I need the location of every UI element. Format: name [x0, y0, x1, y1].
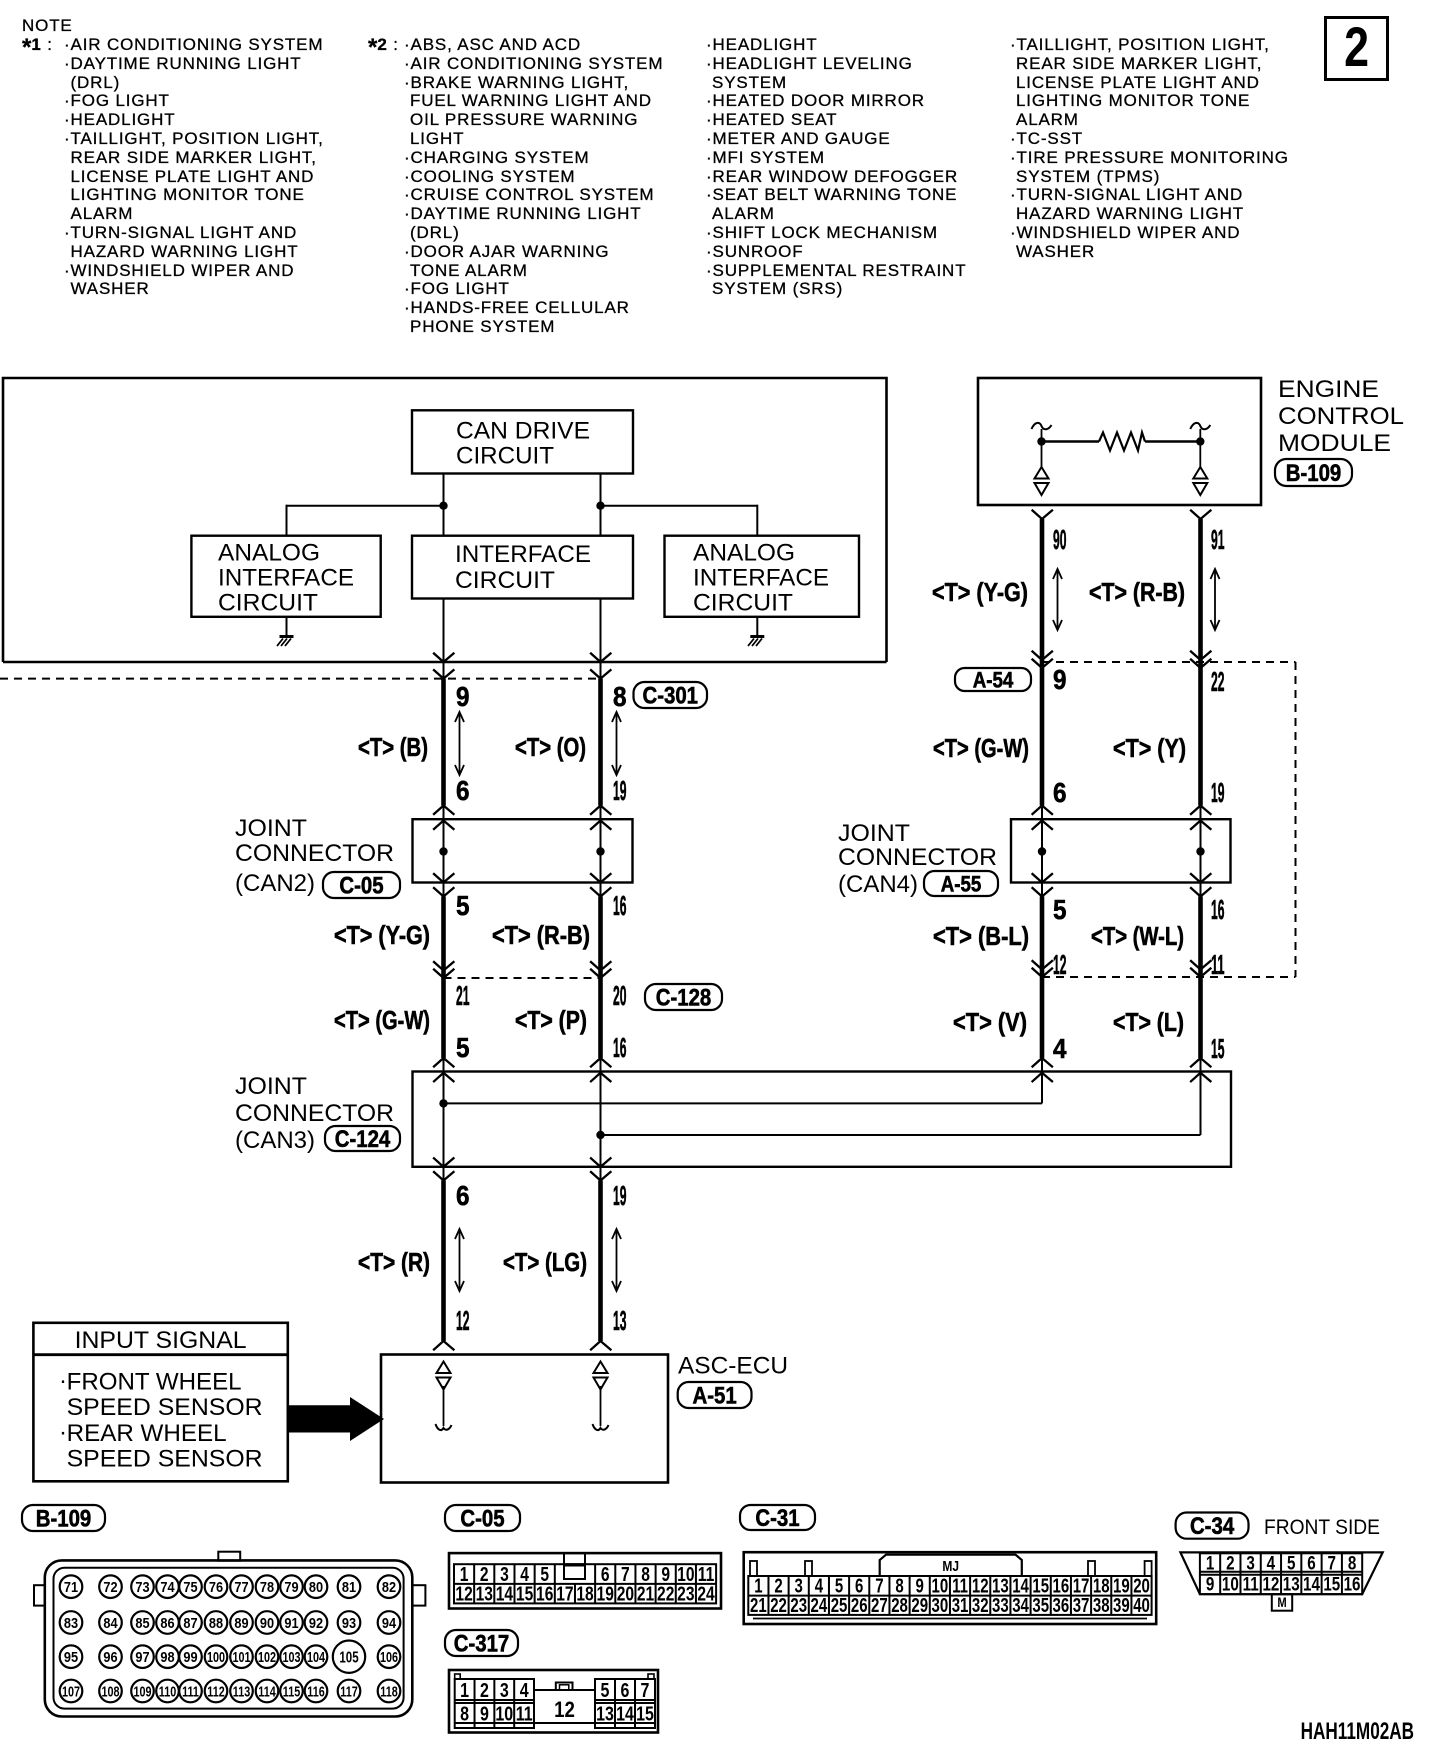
svg-text:29: 29: [911, 1594, 928, 1617]
connector C-128 dashed boundary: [444, 977, 601, 979]
svg-text:A-54: A-54: [973, 669, 1014, 693]
svg-text:13: 13: [596, 1703, 614, 1725]
svg-text:SPEED SENSOR: SPEED SENSOR: [67, 1394, 263, 1421]
svg-text:<T> (B-L): <T> (B-L): [933, 921, 1029, 951]
C-317 center cavity: [534, 1689, 595, 1691]
joint connector (CAN2) C-05 box: [413, 819, 633, 882]
B-109 pin 111: [179, 1680, 202, 1703]
B-109 pin 99: [179, 1645, 202, 1668]
svg-text:38: 38: [1093, 1594, 1110, 1617]
note list 1 items: [64, 36, 323, 55]
crossing at C-128 (left): [434, 970, 454, 979]
ground (left analog interface): [286, 617, 288, 636]
C-05 pin 12: [455, 1583, 472, 1605]
svg-text:94: 94: [382, 1614, 396, 1631]
twisted pair arrow (ECM left): [1057, 570, 1059, 629]
crossing above C-128 (right): [591, 962, 611, 971]
svg-text:ASC-ECU: ASC-ECU: [678, 1353, 788, 1380]
wire inside C-124 (left): [443, 1072, 445, 1167]
C-05 pin 16: [536, 1583, 553, 1605]
svg-text:6: 6: [621, 1679, 630, 1701]
svg-text:20: 20: [617, 1583, 634, 1605]
C-317 pin 8: [460, 1703, 469, 1725]
svg-text:A-55: A-55: [941, 873, 982, 897]
crossing at C-05 top edge (left): [434, 821, 454, 830]
B-109 pin 117: [338, 1680, 361, 1703]
C-317 top-left notch: [455, 1674, 461, 1679]
svg-text:19: 19: [1211, 777, 1225, 808]
note list 1 marker: [22, 36, 53, 55]
svg-text:CONNECTOR: CONNECTOR: [235, 840, 394, 867]
svg-text:<T> (LG): <T> (LG): [503, 1247, 587, 1277]
C-31 pin 37: [1073, 1594, 1090, 1617]
svg-text:13: 13: [1283, 1573, 1300, 1595]
C-05 pin 4: [520, 1563, 529, 1585]
C-31 pin 18: [1093, 1574, 1110, 1597]
svg-text:16: 16: [1211, 894, 1225, 925]
crossing above harness dashed (left): [1033, 961, 1053, 970]
svg-text:36: 36: [1053, 1594, 1070, 1617]
C-05 pin 19: [597, 1583, 614, 1605]
svg-text:4: 4: [520, 1679, 529, 1701]
svg-text:81: 81: [342, 1578, 356, 1595]
svg-text:92: 92: [309, 1614, 323, 1631]
wire pin 5 to pin 21 (Y-G): [443, 883, 445, 897]
svg-text:<T> (R-B): <T> (R-B): [492, 920, 590, 950]
C-05 pin 10: [677, 1563, 694, 1585]
wire inside A-55 (right): [1200, 819, 1202, 882]
C-317 right pin block: [595, 1679, 655, 1728]
svg-text:CIRCUIT: CIRCUIT: [456, 443, 554, 470]
svg-text:22: 22: [770, 1594, 787, 1617]
C-317 pin 7: [641, 1679, 650, 1701]
crossing at C-05 bottom edge (left): [434, 874, 454, 883]
svg-text:2: 2: [1226, 1552, 1234, 1574]
svg-text:24: 24: [811, 1594, 828, 1617]
crossing above C-05 (right): [591, 806, 611, 815]
connector label C-301: [634, 682, 708, 708]
svg-text:115: 115: [283, 1683, 300, 1700]
svg-text:C-301: C-301: [642, 682, 698, 709]
C-05 pin 6: [601, 1563, 610, 1585]
svg-text:13: 13: [613, 1305, 627, 1336]
svg-text:90: 90: [260, 1614, 274, 1631]
svg-text:32: 32: [972, 1594, 989, 1617]
junction node C-05 left: [439, 847, 447, 855]
B-109 pin 89: [230, 1611, 253, 1634]
svg-text:(CAN4): (CAN4): [838, 871, 918, 898]
svg-text:9: 9: [480, 1703, 489, 1725]
C-31 pin 32: [972, 1594, 989, 1617]
C-31 pin 29: [911, 1594, 928, 1617]
interface circuit block: [412, 536, 633, 599]
svg-text:31: 31: [952, 1594, 969, 1617]
crossing above C-128 (left): [434, 962, 454, 971]
svg-text:INPUT SIGNAL: INPUT SIGNAL: [75, 1327, 247, 1354]
svg-text:FRONT SIDE: FRONT SIDE: [1264, 1516, 1380, 1539]
crossing at C-124 bottom edge (right): [591, 1158, 611, 1167]
B-109 pin 100: [205, 1645, 228, 1668]
B-109 pin 82: [378, 1575, 401, 1598]
svg-text:C-05: C-05: [339, 872, 383, 899]
B-109 pin 91: [280, 1611, 303, 1634]
wire pin 8 to pin 19 (CAN-H, O): [598, 679, 603, 806]
connector label B-109 (pinout): [22, 1505, 105, 1531]
svg-text:107: 107: [62, 1683, 80, 1700]
svg-text:6: 6: [1053, 777, 1067, 808]
note list 2 items (column A): [404, 36, 581, 55]
svg-text:85: 85: [135, 1614, 149, 1631]
svg-text:19: 19: [597, 1583, 614, 1605]
wire pin 9 to pin 6 (CAN-L, B): [441, 679, 446, 806]
svg-text:79: 79: [284, 1578, 298, 1595]
svg-text:7: 7: [641, 1679, 650, 1701]
svg-text:1: 1: [460, 1679, 469, 1701]
svg-text:5: 5: [456, 890, 470, 921]
C-31 bottom inner line: [753, 1618, 1147, 1620]
C-31 pin 6: [855, 1574, 863, 1597]
svg-text:<T> (P): <T> (P): [515, 1005, 587, 1035]
svg-text:3: 3: [1246, 1552, 1254, 1574]
C-34 pin 9: [1206, 1573, 1214, 1595]
C-05 keyway tab: [564, 1553, 585, 1564]
node branch right: [596, 502, 604, 510]
svg-text:90: 90: [1053, 524, 1067, 555]
joint connector (CAN3) C-124 box: [413, 1072, 1232, 1167]
C-31 pin 15: [1032, 1574, 1049, 1597]
bus wire CAN-L inside C-124: [444, 1102, 1043, 1104]
svg-text:ANALOG: ANALOG: [218, 540, 320, 567]
crossing at harness dashed line: [1033, 969, 1053, 978]
connector label C-128: [645, 984, 722, 1010]
B-109 pin 114: [256, 1680, 279, 1703]
svg-text:11: 11: [1243, 1573, 1259, 1595]
C-31 pin 38: [1093, 1594, 1110, 1617]
junction node C-124 CAN-L: [439, 1099, 447, 1107]
svg-text:98: 98: [160, 1648, 174, 1665]
connector A-54 dashed boundary and harness dashed outline: [1042, 661, 1296, 663]
C-34 pin 1: [1206, 1552, 1215, 1574]
svg-text:5: 5: [1287, 1552, 1296, 1574]
svg-text:39: 39: [1113, 1594, 1130, 1617]
crossing at C-124 top edge (left col wires): [434, 1073, 454, 1082]
svg-text:28: 28: [891, 1594, 908, 1617]
svg-text:80: 80: [309, 1578, 323, 1595]
C-05 pin 3: [500, 1563, 509, 1585]
svg-text:12: 12: [554, 1699, 575, 1723]
svg-text:10: 10: [1222, 1573, 1239, 1595]
C-31 pin 23: [790, 1594, 807, 1617]
C-317 pin 5: [601, 1679, 610, 1701]
svg-text:109: 109: [134, 1683, 152, 1700]
C-31 pin 30: [932, 1594, 949, 1617]
wire pin 91 to A-54 pin 22 (R-B): [1191, 511, 1211, 520]
connector label C-34: [1176, 1513, 1249, 1539]
B-109 pin 78: [256, 1575, 279, 1598]
svg-text:78: 78: [260, 1578, 274, 1595]
analog interface circuit block (right): [665, 536, 860, 617]
ECM internal node left: [1037, 437, 1045, 445]
C-05 pin 11: [698, 1563, 715, 1585]
input signal box: [33, 1323, 287, 1482]
combination meter outer box: [3, 378, 887, 662]
wire pin 6 to pin 12 (R): [434, 1172, 454, 1181]
C-317 pin 14: [616, 1703, 634, 1725]
C-05 pin 1: [460, 1563, 469, 1585]
C-34 pin 2: [1226, 1552, 1234, 1574]
C-05 pin 21: [637, 1583, 654, 1605]
ground (right analog interface): [756, 617, 758, 636]
ECM pin symbol left (pin 90): [1035, 467, 1049, 479]
crossing at A-55 top edge: [1033, 821, 1053, 830]
svg-text:FRONT WHEEL: FRONT WHEEL: [67, 1368, 242, 1395]
svg-text:CONNECTOR: CONNECTOR: [235, 1100, 394, 1127]
twisted pair arrow (lower right): [616, 1230, 618, 1290]
input signal arrow: [289, 1397, 384, 1441]
connector C-31 pinout body: [744, 1552, 1156, 1624]
svg-text:9: 9: [1053, 664, 1067, 695]
svg-text:B-109: B-109: [1286, 459, 1342, 486]
svg-text:21: 21: [750, 1594, 767, 1617]
svg-text:17: 17: [556, 1583, 573, 1605]
B-109 pin 93: [338, 1611, 361, 1634]
svg-text:<T> (G-W): <T> (G-W): [933, 733, 1029, 763]
svg-text:71: 71: [64, 1578, 78, 1595]
C-317 pin 11: [516, 1703, 533, 1725]
crossing above C-124 (right col): [1033, 1058, 1053, 1067]
svg-text:13: 13: [476, 1583, 493, 1605]
svg-text:16: 16: [536, 1583, 553, 1605]
svg-text:INTERFACE: INTERFACE: [693, 565, 829, 592]
svg-text:117: 117: [340, 1683, 357, 1700]
C-34 pin 3: [1246, 1552, 1254, 1574]
svg-text:8: 8: [1348, 1552, 1357, 1574]
note list 2 items (column B): [706, 36, 817, 55]
junction node A-55 left: [1038, 847, 1046, 855]
page number box: [1324, 16, 1389, 81]
note list 2 items (column C): [1010, 36, 1270, 55]
svg-text:12: 12: [1053, 949, 1067, 980]
svg-text:14: 14: [616, 1703, 634, 1725]
C-31 pin 24: [811, 1594, 828, 1617]
C-317 pin 12: [554, 1699, 575, 1723]
C-34 pin 16: [1344, 1573, 1361, 1595]
svg-text:16: 16: [1344, 1573, 1361, 1595]
joint connector (CAN4) A-55 box: [1011, 819, 1231, 882]
C-05 pin 5: [540, 1563, 549, 1585]
C-317 pin 9: [480, 1703, 489, 1725]
svg-text:<T> (O): <T> (O): [515, 732, 586, 762]
wire CAN drive to interface circuit (right): [600, 474, 602, 536]
svg-text:116: 116: [307, 1683, 324, 1700]
C-05 pin 22: [657, 1583, 674, 1605]
combination meter bottom edge: [3, 661, 887, 664]
svg-text:113: 113: [233, 1683, 250, 1700]
C-31 pin 35: [1032, 1594, 1049, 1617]
C-34 M keyway: [1272, 1594, 1292, 1611]
C-34 pin 5: [1287, 1552, 1296, 1574]
C-31 pin 22: [770, 1594, 787, 1617]
crossing at C-124 bottom edge (left): [434, 1158, 454, 1167]
svg-text:91: 91: [284, 1614, 298, 1631]
C-05 pin 18: [576, 1583, 593, 1605]
B-109 top tab: [218, 1552, 240, 1561]
svg-text:111: 111: [182, 1683, 199, 1700]
C-317 left pin block: [455, 1679, 534, 1728]
B-109 pin 96: [99, 1645, 122, 1668]
svg-text:96: 96: [103, 1648, 117, 1665]
svg-text:35: 35: [1032, 1594, 1049, 1617]
wire inside C-05 (right): [600, 819, 602, 882]
C-05 pin 7: [621, 1563, 630, 1585]
connector C-05 pinout body: [449, 1553, 721, 1608]
C-31 pin 14: [1012, 1574, 1029, 1597]
connector label C-05 (pinout): [445, 1505, 520, 1531]
svg-text:5: 5: [1053, 894, 1067, 925]
C-317 pin 4: [520, 1679, 529, 1701]
svg-text:84: 84: [103, 1614, 117, 1631]
svg-text:<T> (Y-G): <T> (Y-G): [334, 920, 430, 950]
svg-text:CIRCUIT: CIRCUIT: [218, 589, 318, 616]
svg-text:ANALOG: ANALOG: [693, 540, 795, 567]
svg-text:7: 7: [1328, 1552, 1336, 1574]
C-31 pin 2: [774, 1574, 782, 1597]
wire pin 19 to pin 13 (LG): [591, 1172, 611, 1181]
B-109 pin 112: [205, 1680, 228, 1703]
svg-text:<T> (B): <T> (B): [358, 732, 428, 762]
svg-text:12: 12: [1262, 1573, 1279, 1595]
connector crossing at meter box edge (right wire): [591, 654, 611, 663]
svg-text:B-109: B-109: [36, 1505, 92, 1532]
svg-text:23: 23: [790, 1594, 807, 1617]
B-109 pin 97: [131, 1645, 154, 1668]
svg-text:3: 3: [500, 1679, 509, 1701]
B-109 pin 105: [333, 1641, 365, 1673]
crossing at ASC-ECU (right): [591, 1341, 611, 1350]
C-317 pin 13: [596, 1703, 614, 1725]
C-31 pin 39: [1113, 1594, 1130, 1617]
C-31 pin 26: [851, 1594, 868, 1617]
svg-text:16: 16: [613, 890, 627, 921]
B-109 pin 110: [156, 1680, 179, 1703]
crossing at C-05 top edge (right): [591, 821, 611, 830]
svg-text:27: 27: [871, 1594, 888, 1617]
bus wire CAN-H inside C-124: [601, 1134, 1201, 1136]
crossing above C-124 (right): [591, 1058, 611, 1067]
C-05 pin 20: [617, 1583, 634, 1605]
svg-text:8: 8: [460, 1703, 469, 1725]
connector B-109 pinout body: [45, 1560, 413, 1716]
svg-text:5: 5: [601, 1679, 610, 1701]
C-31 pin 19: [1113, 1574, 1130, 1597]
connector C-34 body: [1180, 1552, 1382, 1594]
crossing at A-55 bottom edge: [1033, 874, 1053, 883]
connector label C-317: [445, 1630, 518, 1656]
crossing at ASC-ECU (left): [434, 1341, 454, 1350]
wire CAN-H interface to C-301 (thin): [600, 599, 602, 679]
svg-text:26: 26: [851, 1594, 868, 1617]
C-05 pin 17: [556, 1583, 573, 1605]
B-109 pin 108: [99, 1680, 122, 1703]
C-31 pin 3: [795, 1574, 803, 1597]
C-31 pin 20: [1133, 1574, 1150, 1597]
svg-text:M: M: [1277, 1595, 1286, 1610]
svg-text:JOINT: JOINT: [838, 820, 910, 847]
junction node C-124 CAN-H: [596, 1131, 604, 1139]
B-109 pin 87: [179, 1611, 202, 1634]
twisted pair arrow (ECM right): [1214, 570, 1216, 629]
C-31 pin 12: [972, 1574, 989, 1597]
C-31 MJ block: [880, 1555, 1022, 1576]
B-109 pin 95: [60, 1645, 83, 1668]
svg-text:77: 77: [234, 1578, 248, 1595]
analog interface circuit block (left): [191, 536, 380, 617]
C-31 pin 40: [1133, 1594, 1150, 1617]
svg-text:89: 89: [234, 1614, 248, 1631]
svg-text:<T> (G-W): <T> (G-W): [334, 1005, 430, 1035]
svg-text:75: 75: [183, 1578, 197, 1595]
crossing at A-54 (right): [1191, 652, 1211, 661]
C-317 pin 10: [495, 1703, 513, 1725]
crossing at C-124 top edge (right col): [1033, 1073, 1053, 1082]
C-31 pin 28: [891, 1594, 908, 1617]
C-31 pin 13: [992, 1574, 1009, 1597]
ECM internal: coil curl left: [1032, 423, 1052, 429]
B-109 pin 83: [60, 1611, 83, 1634]
crossing above C-124 (left): [434, 1058, 454, 1067]
C-05 pin 23: [677, 1583, 694, 1605]
B-109 pin 72: [99, 1575, 122, 1598]
B-109 pin 79: [280, 1575, 303, 1598]
wire inside C-124 down to CAN-L bus: [1041, 1072, 1043, 1104]
svg-text:108: 108: [102, 1683, 120, 1700]
svg-text:C-128: C-128: [656, 984, 712, 1011]
svg-text:ENGINE: ENGINE: [1278, 376, 1379, 403]
B-109 pin 94: [378, 1611, 401, 1634]
B-109 pin 92: [305, 1611, 328, 1634]
B-109 pin 88: [205, 1611, 228, 1634]
C-05 pin 2: [480, 1563, 489, 1585]
C-34 pin 10: [1222, 1573, 1239, 1595]
svg-text:15: 15: [1323, 1573, 1340, 1595]
ASC-ECU block: [381, 1355, 668, 1483]
C-31 pin 16: [1053, 1574, 1070, 1597]
svg-text:12: 12: [456, 1305, 470, 1336]
svg-text:<T> (V): <T> (V): [953, 1007, 1027, 1037]
C-05 pin 24: [697, 1583, 714, 1605]
svg-text:8: 8: [613, 681, 627, 712]
B-109 left tab: [34, 1585, 45, 1605]
wire A-55 pin 16 to pin 11 (W-L): [1200, 883, 1202, 897]
twisted pair arrow (right): [616, 713, 618, 774]
svg-text:C-124: C-124: [335, 1125, 391, 1152]
svg-text:C-31: C-31: [755, 1504, 799, 1531]
B-109 pin 73: [131, 1575, 154, 1598]
svg-text:14: 14: [496, 1583, 513, 1605]
C-31 pin 17: [1073, 1574, 1090, 1597]
wire pin 90 to A-54 pin 9 (Y-G): [1033, 511, 1053, 520]
svg-text:40: 40: [1133, 1594, 1150, 1617]
C-317 keyway: [556, 1683, 573, 1691]
C-05 pin 15: [516, 1583, 533, 1605]
svg-text:9: 9: [456, 681, 470, 712]
svg-text:11: 11: [516, 1703, 533, 1725]
svg-text:C-34: C-34: [1190, 1513, 1235, 1540]
svg-text:24: 24: [697, 1583, 714, 1605]
C-31 pin 31: [952, 1594, 969, 1617]
svg-text:19: 19: [613, 775, 627, 806]
C-317 pin 2: [480, 1679, 489, 1701]
